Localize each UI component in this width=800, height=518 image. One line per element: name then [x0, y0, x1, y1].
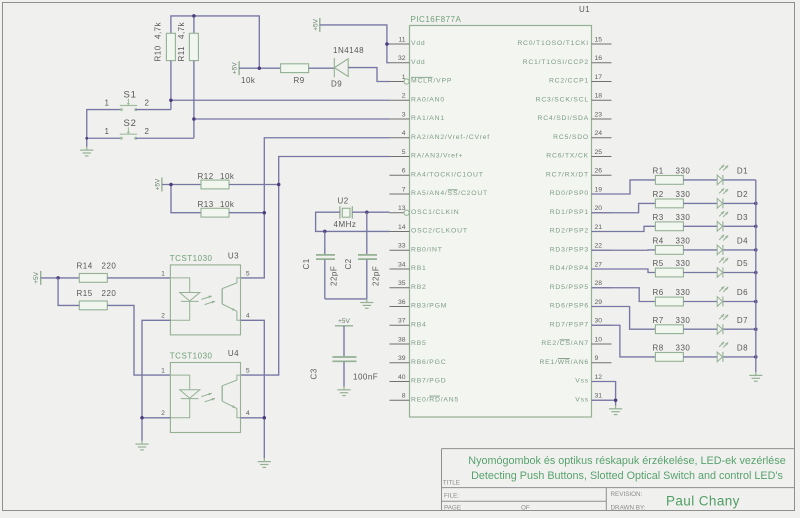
svg-text:39: 39: [398, 355, 406, 362]
junction +5V rail R9: [258, 66, 262, 70]
svg-text:32: 32: [398, 55, 406, 62]
svg-text:23: 23: [595, 111, 603, 118]
title block: [442, 449, 795, 512]
svg-text:D1: D1: [737, 167, 748, 176]
junction D6 cathode: [754, 300, 758, 304]
svg-text:21: 21: [595, 224, 603, 231]
wire D3 to cathode bus: [724, 225, 756, 227]
wire D9 to MCLR pin 1: [348, 68, 389, 82]
svg-text:Vdd: Vdd: [411, 59, 426, 66]
svg-text:2: 2: [161, 313, 165, 320]
svg-text:+5V: +5V: [338, 318, 350, 325]
wire +5V rail to R10 R11 tops: [171, 16, 259, 68]
svg-text:D9: D9: [331, 80, 342, 89]
svg-text:S2: S2: [124, 118, 137, 129]
ground below Vss: [609, 405, 622, 414]
junction D8 cathode: [754, 355, 758, 359]
svg-text:RD7/PSP7: RD7/PSP7: [550, 321, 589, 328]
svg-text:40: 40: [398, 374, 406, 381]
svg-text:26: 26: [595, 168, 603, 175]
junction R11 top: [192, 14, 196, 18]
svg-text:330: 330: [676, 213, 691, 222]
svg-text:RB0/INT: RB0/INT: [411, 246, 443, 253]
svg-text:MCLR/VPP: MCLR/VPP: [411, 78, 452, 85]
svg-text:330: 330: [676, 190, 691, 199]
svg-text:11: 11: [398, 36, 405, 43]
svg-text:RC5/SDO: RC5/SDO: [553, 134, 589, 141]
svg-text:PAGE: PAGE: [444, 505, 461, 512]
junction R12 R13 feed: [169, 183, 173, 187]
wire +5V to C3: [343, 326, 345, 357]
svg-text:100nF: 100nF: [353, 372, 378, 381]
opto interrupter U3 TCST1030: [161, 251, 250, 335]
svg-text:4: 4: [246, 313, 250, 320]
resistor R11 4,7k: [177, 21, 198, 61]
svg-text:RC2/CCP1: RC2/CCP1: [549, 78, 589, 85]
wire D2 to cathode bus: [724, 202, 756, 204]
svg-text:4: 4: [402, 130, 406, 137]
svg-text:16: 16: [595, 55, 603, 62]
svg-text:RA4/TOCKI/C1OUT: RA4/TOCKI/C1OUT: [411, 171, 484, 178]
svg-text:2: 2: [402, 93, 406, 100]
svg-text:22pF: 22pF: [372, 266, 381, 286]
svg-text:R8: R8: [653, 344, 664, 353]
svg-text:2: 2: [161, 410, 165, 417]
svg-text:R1: R1: [653, 167, 664, 176]
wire crystal to OSC2: [316, 212, 390, 231]
wire U3 emitter to ground rail: [241, 320, 265, 458]
svg-text:U2: U2: [338, 196, 349, 205]
wire D7 to cathode bus: [724, 328, 756, 330]
svg-text:RA0/AN0: RA0/AN0: [411, 96, 445, 103]
svg-text:R6: R6: [653, 288, 664, 297]
wire C3 to ground: [343, 362, 345, 387]
wire RD4 to R5: [592, 269, 656, 273]
svg-text:S1: S1: [124, 90, 137, 101]
svg-text:33: 33: [398, 243, 406, 250]
svg-text:R7: R7: [653, 316, 664, 325]
LED D2: [717, 188, 748, 208]
svg-text:D3: D3: [737, 213, 748, 222]
svg-text:10: 10: [595, 336, 603, 343]
wire +5V down to R15: [58, 278, 79, 306]
svg-text:RE2/CS/AN7: RE2/CS/AN7: [541, 340, 589, 347]
wire U4 emitter to ground rail: [241, 417, 265, 419]
junction S2 ground rail: [85, 137, 88, 140]
svg-text:RC1/T1OSI/CCP2: RC1/T1OSI/CCP2: [523, 59, 589, 66]
wire R12 to RA3 net: [229, 184, 279, 186]
svg-text:RD6/PSP6: RD6/PSP6: [550, 303, 589, 310]
svg-text:1: 1: [105, 127, 110, 136]
junction D2 cathode: [754, 202, 758, 206]
wire ground rail to S1 S2: [87, 110, 121, 147]
resistor R12 10k: [198, 172, 235, 189]
wire RD2 to R3: [592, 226, 656, 231]
junction D3 cathode: [754, 225, 758, 229]
svg-text:20: 20: [595, 205, 603, 212]
svg-text:RB5: RB5: [411, 340, 427, 347]
power +5V for Vdd: [312, 18, 320, 32]
svg-text:RA/AN3/Vref+: RA/AN3/Vref+: [411, 153, 463, 160]
svg-text:29: 29: [595, 299, 603, 306]
svg-text:35: 35: [398, 280, 406, 287]
wire RD5 to R6: [592, 288, 656, 302]
svg-text:RD1/PSP1: RD1/PSP1: [550, 209, 589, 216]
wire C1 C2 to ground: [325, 298, 367, 300]
svg-text:22: 22: [595, 243, 603, 250]
svg-text:1N4148: 1N4148: [333, 46, 364, 55]
wire RD0 to R1: [592, 180, 656, 194]
LED D1: [717, 165, 748, 185]
svg-text:R9: R9: [294, 76, 305, 85]
svg-text:Paul Chany: Paul Chany: [666, 494, 740, 509]
wire +5V to R9: [239, 67, 281, 69]
svg-text:U1: U1: [579, 5, 590, 14]
junction Vss pin 31: [614, 399, 618, 403]
svg-text:5: 5: [402, 149, 406, 156]
wire R10 bottom to S1: [170, 61, 172, 110]
svg-text:REVISION:: REVISION:: [611, 491, 643, 498]
svg-text:RC6/TX/CK: RC6/TX/CK: [546, 153, 589, 160]
diode D9 1N4148: [331, 46, 364, 89]
LED D3: [717, 211, 748, 231]
svg-text:37: 37: [398, 318, 406, 325]
svg-text:RB2: RB2: [411, 284, 427, 291]
svg-text:1: 1: [105, 99, 110, 108]
svg-text:RB7/PGD: RB7/PGD: [411, 378, 446, 385]
wire RD7 to R8: [592, 325, 656, 357]
svg-text:4MHz: 4MHz: [334, 220, 357, 229]
svg-text:D5: D5: [737, 259, 748, 268]
svg-text:34: 34: [398, 261, 406, 268]
svg-text:Vdd: Vdd: [411, 40, 426, 47]
svg-text:PIC16F877A: PIC16F877A: [411, 15, 462, 24]
wire D4 to cathode bus: [724, 249, 756, 251]
junction R13 RA2 net: [263, 211, 267, 215]
svg-text:R2: R2: [653, 190, 664, 199]
wire U3 cathode to ground rail: [142, 320, 170, 441]
svg-text:22pF: 22pF: [330, 266, 339, 286]
svg-text:30: 30: [595, 318, 603, 325]
opto interrupter U4 TCST1030: [161, 349, 250, 433]
resistor R10 4,7k: [154, 21, 176, 61]
svg-text:D7: D7: [737, 316, 748, 325]
resistor R14 220: [77, 261, 117, 282]
wire D1 to cathode bus: [724, 179, 756, 181]
wire U4 cathode to ground rail: [142, 417, 170, 419]
junction Vdd pin 11: [385, 42, 389, 46]
svg-text:RD3/PSP3: RD3/PSP3: [550, 246, 589, 253]
svg-text:TITLE: TITLE: [443, 479, 460, 486]
wire D6 to cathode bus: [724, 301, 756, 303]
svg-text:Detecting Push Buttons, Slotte: Detecting Push Buttons, Slotted Optical …: [471, 470, 783, 482]
power +5V near R12: [154, 178, 162, 192]
svg-text:OSC1/CLKIN: OSC1/CLKIN: [411, 209, 459, 216]
wire R5 to D5: [683, 272, 717, 274]
junction OSC1 C2: [365, 210, 369, 214]
svg-text:10k: 10k: [220, 200, 235, 209]
svg-text:RD2/PSP2: RD2/PSP2: [550, 228, 589, 235]
svg-text:31: 31: [595, 393, 603, 400]
svg-text:+5V: +5V: [154, 178, 161, 190]
wire R2 to D2: [683, 202, 717, 204]
wire S1 to RA0: [136, 100, 390, 109]
svg-text:Vss: Vss: [575, 396, 589, 403]
svg-text:RE1/WR/AN6: RE1/WR/AN6: [539, 359, 589, 366]
wire +5V to R12 R13: [162, 185, 201, 213]
svg-text:14: 14: [398, 224, 406, 231]
junction R12 RA3 net: [277, 183, 281, 187]
svg-text:OF: OF: [521, 505, 530, 512]
svg-text:RB4: RB4: [411, 321, 427, 328]
svg-text:U4: U4: [228, 349, 239, 358]
svg-text:24: 24: [595, 130, 603, 137]
svg-text:36: 36: [398, 299, 406, 306]
svg-text:D8: D8: [737, 344, 748, 353]
wire D8 to cathode bus: [724, 356, 756, 358]
junction OSC2 C1: [323, 230, 327, 234]
svg-text:4: 4: [246, 410, 250, 417]
svg-text:10k: 10k: [220, 172, 235, 181]
junction D4 cathode: [754, 248, 758, 252]
svg-text:330: 330: [676, 167, 691, 176]
junction D5 cathode: [754, 271, 758, 275]
wire R9 to D9: [309, 67, 335, 69]
svg-text:R14: R14: [77, 261, 93, 270]
resistor R7 330: [653, 316, 691, 334]
svg-text:3: 3: [402, 111, 406, 118]
svg-text:8: 8: [402, 393, 406, 400]
svg-text:RC0/T1OSO/T1CKI: RC0/T1OSO/T1CKI: [517, 40, 589, 47]
resistor R15 220: [77, 289, 117, 310]
svg-text:R4: R4: [653, 237, 664, 246]
LED D4: [717, 235, 748, 255]
wire RD3 to R4: [592, 249, 656, 251]
svg-text:R10: R10: [154, 45, 163, 61]
resistor R1 330: [653, 167, 691, 185]
junction RA0: [169, 99, 173, 103]
svg-text:12: 12: [595, 374, 603, 381]
svg-text:2: 2: [145, 127, 150, 136]
svg-text:TCST1030: TCST1030: [170, 352, 213, 361]
LED D7: [717, 314, 748, 334]
wire RA2 to U3 collector: [241, 138, 390, 278]
svg-text:TCST1030: TCST1030: [170, 254, 213, 263]
power +5V near R14: [33, 271, 41, 285]
svg-text:RB6/PGC: RB6/PGC: [411, 359, 446, 366]
wire RA3 to U4 collector: [241, 157, 390, 376]
svg-text:15: 15: [595, 36, 603, 43]
op-amp U1 PIC16F877A: [390, 5, 612, 417]
ground below C3: [337, 386, 350, 395]
junction R14 R15 feed: [56, 276, 60, 280]
wire R11 bottom to S2: [193, 61, 195, 139]
resistor R3 330: [653, 213, 691, 231]
push button S1: [105, 90, 150, 112]
resistor R9 10k: [241, 64, 309, 85]
svg-text:C1: C1: [302, 258, 311, 269]
svg-text:RA1/AN1: RA1/AN1: [411, 115, 445, 122]
wire Vss pins to ground: [592, 382, 616, 406]
svg-text:DRAWN BY:: DRAWN BY:: [611, 505, 646, 512]
svg-text:R13: R13: [198, 200, 214, 209]
ground below LED bus: [749, 372, 762, 381]
svg-text:RB1: RB1: [411, 265, 427, 272]
svg-text:+5V: +5V: [33, 271, 40, 283]
svg-text:Nyomógombok és optikus réskapu: Nyomógombok és optikus réskapuk érzékelé…: [468, 455, 785, 467]
svg-text:27: 27: [595, 261, 603, 268]
svg-text:38: 38: [398, 336, 406, 343]
push button S2: [105, 118, 150, 140]
svg-text:28: 28: [595, 280, 603, 287]
svg-text:RC7/RX/DT: RC7/RX/DT: [546, 171, 589, 178]
LED D5: [717, 257, 748, 277]
wire R13 to RA2 net: [229, 212, 264, 214]
svg-text:4,7k: 4,7k: [154, 21, 163, 39]
wire R6 to D6: [683, 301, 717, 303]
svg-text:330: 330: [676, 316, 691, 325]
svg-text:330: 330: [676, 288, 691, 297]
junction U4 cathode: [140, 416, 144, 420]
wire +5V to U1 Vdd pins 11 32: [320, 25, 390, 63]
svg-text:RB3/PGM: RB3/PGM: [411, 303, 447, 310]
wire crystal to OSC1: [352, 211, 389, 213]
power +5V above C3: [335, 318, 353, 326]
svg-text:RD4/PSP4: RD4/PSP4: [550, 265, 589, 272]
junction U4 emitter: [263, 416, 267, 420]
svg-text:2: 2: [145, 99, 150, 108]
svg-text:19: 19: [595, 186, 603, 193]
power +5V near R9: [232, 61, 240, 75]
LED D6: [717, 286, 748, 306]
wire R7 to D7: [683, 328, 717, 330]
svg-text:RE0/RD/AN5: RE0/RD/AN5: [411, 396, 459, 403]
wire LED cathode bus: [755, 180, 757, 372]
svg-text:FILE:: FILE:: [444, 493, 459, 500]
resistor R13 10k: [198, 200, 235, 217]
svg-text:OSC2/CLKOUT: OSC2/CLKOUT: [411, 228, 468, 235]
svg-text:R3: R3: [653, 213, 664, 222]
svg-text:18: 18: [595, 93, 603, 100]
svg-text:5: 5: [246, 368, 250, 375]
svg-text:RA2/AN2/Vref-/CVref: RA2/AN2/Vref-/CVref: [411, 134, 490, 141]
wire R1 to D1: [683, 179, 717, 181]
crystal U2 4MHz: [334, 196, 357, 229]
ground below opto emitters: [258, 458, 271, 467]
svg-text:RA5/AN4/SS/C2OUT: RA5/AN4/SS/C2OUT: [411, 190, 488, 197]
svg-text:RC4/SDI/SDA: RC4/SDI/SDA: [538, 115, 589, 122]
svg-text:17: 17: [595, 74, 603, 81]
junction RA1: [192, 117, 196, 121]
svg-text:RD5/PSP5: RD5/PSP5: [550, 284, 589, 291]
svg-text:D2: D2: [737, 190, 748, 199]
svg-text:+5V: +5V: [312, 18, 319, 30]
svg-text:R5: R5: [653, 259, 664, 268]
svg-text:R15: R15: [77, 289, 93, 298]
wire RD6 to R7: [592, 307, 656, 330]
wire R4 to D4: [683, 249, 717, 251]
wire R3 to D3: [683, 225, 717, 227]
wire R14 to U3 anode: [107, 277, 170, 279]
svg-text:R12: R12: [198, 172, 214, 181]
ground below S1 S2: [80, 147, 93, 156]
svg-text:+5V: +5V: [232, 62, 239, 74]
resistor R8 330: [653, 344, 691, 362]
ground below C1 C2: [360, 299, 373, 308]
svg-text:9: 9: [595, 355, 599, 362]
svg-text:220: 220: [102, 289, 117, 298]
resistor R6 330: [653, 288, 691, 306]
wire R15 to U4 anode: [107, 305, 170, 375]
svg-text:7: 7: [402, 186, 406, 193]
resistor R4 330: [653, 237, 691, 255]
svg-text:D6: D6: [737, 288, 748, 297]
svg-text:10k: 10k: [241, 76, 256, 85]
svg-text:D4: D4: [737, 237, 748, 246]
wire S2 to RA1: [136, 119, 390, 138]
svg-text:6: 6: [402, 168, 406, 175]
svg-text:220: 220: [102, 261, 117, 270]
ground below opto LEDs: [135, 441, 148, 450]
wire D5 to cathode bus: [724, 272, 756, 274]
svg-text:4,7k: 4,7k: [177, 21, 186, 39]
wire RD1 to R2: [592, 203, 656, 212]
resistor R2 330: [653, 190, 691, 208]
svg-text:C3: C3: [310, 368, 319, 379]
svg-text:U3: U3: [228, 251, 239, 260]
LED D8: [717, 342, 748, 362]
wire +5V to R14: [41, 277, 80, 279]
svg-text:Vss: Vss: [575, 378, 589, 385]
capacitor C3 100nF: [310, 357, 379, 381]
svg-text:1: 1: [161, 270, 165, 277]
svg-text:C2: C2: [344, 258, 353, 269]
svg-text:RC3/SCK/SCL: RC3/SCK/SCL: [536, 96, 589, 103]
resistor R5 330: [653, 259, 691, 277]
svg-text:25: 25: [595, 149, 603, 156]
svg-text:330: 330: [676, 237, 691, 246]
wire R8 to D8: [683, 356, 717, 358]
capacitor C1 22pF: [302, 231, 339, 299]
svg-text:1: 1: [161, 368, 165, 375]
svg-text:5: 5: [246, 270, 250, 277]
junction D7 cathode: [754, 327, 758, 331]
svg-text:R11: R11: [177, 46, 186, 62]
svg-text:330: 330: [676, 344, 691, 353]
capacitor C2 22pF: [344, 212, 381, 299]
svg-text:RD0/PSP0: RD0/PSP0: [550, 190, 589, 197]
svg-text:330: 330: [676, 259, 691, 268]
